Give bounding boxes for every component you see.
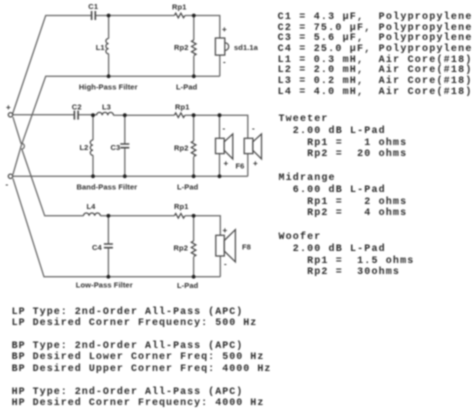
svg-text:+: + — [222, 25, 227, 34]
svg-text:-: - — [223, 124, 226, 133]
svg-text:L3: L3 — [102, 103, 111, 112]
svg-text:Low-Pass Filter: Low-Pass Filter — [76, 281, 133, 290]
svg-text:Rp2: Rp2 — [174, 244, 188, 253]
svg-text:Rp2: Rp2 — [174, 144, 188, 153]
svg-text:C1: C1 — [88, 2, 98, 11]
svg-text:Band-Pass Filter: Band-Pass Filter — [77, 183, 138, 192]
svg-text:L-Pad: L-Pad — [177, 281, 199, 290]
svg-text:L-Pad: L-Pad — [177, 183, 199, 192]
svg-text:F6: F6 — [236, 162, 245, 171]
svg-text:Rp1: Rp1 — [172, 3, 186, 12]
svg-text:C2: C2 — [72, 103, 82, 112]
svg-text:High-Pass Filter: High-Pass Filter — [79, 83, 138, 92]
svg-text:L2: L2 — [80, 143, 89, 152]
svg-text:-: - — [223, 58, 226, 67]
svg-text:+: + — [253, 159, 258, 168]
svg-text:C3: C3 — [111, 143, 121, 152]
svg-text:Rp1: Rp1 — [174, 202, 188, 211]
svg-text:+: + — [6, 103, 11, 112]
svg-text:L-Pad: L-Pad — [176, 83, 198, 92]
svg-text:-: - — [252, 124, 255, 133]
svg-text:sd1.1a: sd1.1a — [234, 43, 259, 52]
svg-text:-: - — [6, 180, 9, 189]
svg-text:Rp1: Rp1 — [175, 103, 189, 112]
svg-text:L4: L4 — [87, 202, 97, 211]
svg-text:F8: F8 — [242, 243, 251, 252]
svg-text:L1: L1 — [96, 43, 105, 52]
svg-text:-: - — [224, 260, 227, 269]
svg-text:+: + — [224, 159, 229, 168]
svg-text:C4: C4 — [92, 243, 103, 252]
svg-text:+: + — [223, 226, 228, 235]
svg-text:Rp2: Rp2 — [174, 43, 188, 52]
